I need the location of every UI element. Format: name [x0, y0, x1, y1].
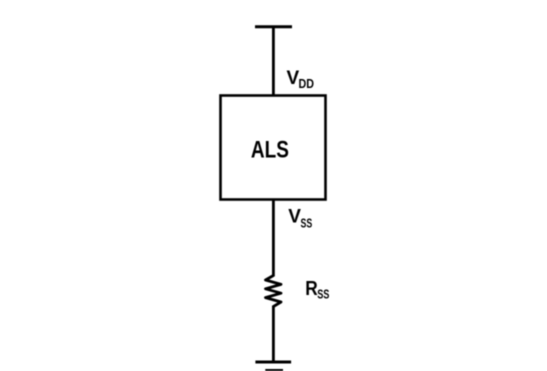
wire resistor RSS to ground — [272, 306, 275, 363]
label RSS — [305, 278, 329, 302]
svg-text:ALS: ALS — [251, 136, 289, 163]
label VDD — [287, 68, 315, 91]
svg-text:DD: DD — [299, 76, 315, 91]
resistor RSS zigzag — [266, 276, 282, 307]
wire VDD rail to ALS box — [272, 26, 275, 96]
wire ALS box to resistor RSS — [272, 199, 275, 277]
svg-text:SS: SS — [317, 287, 329, 302]
power rail VDD bar — [255, 25, 292, 28]
svg-text:V: V — [288, 207, 301, 228]
block U1 ALS box — [221, 96, 326, 200]
ground symbol — [255, 362, 291, 371]
label VSS — [288, 207, 312, 231]
svg-text:SS: SS — [301, 216, 313, 231]
